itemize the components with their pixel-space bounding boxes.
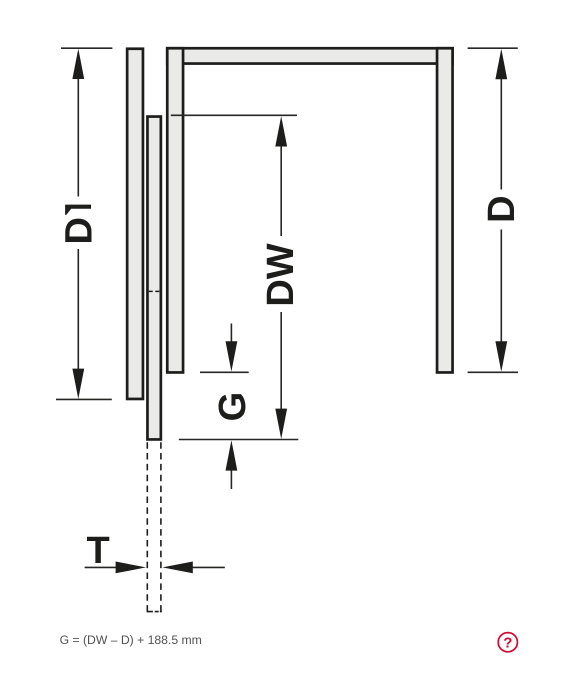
svg-text:G: G xyxy=(212,392,254,422)
svg-text:D: D xyxy=(481,195,523,222)
svg-text:?: ? xyxy=(503,635,512,652)
svg-text:D: D xyxy=(58,217,100,244)
svg-text:G = (DW – D) + 188.5 mm: G = (DW – D) + 188.5 mm xyxy=(60,633,202,647)
svg-text:T: T xyxy=(86,530,109,572)
svg-text:DW: DW xyxy=(260,243,302,306)
